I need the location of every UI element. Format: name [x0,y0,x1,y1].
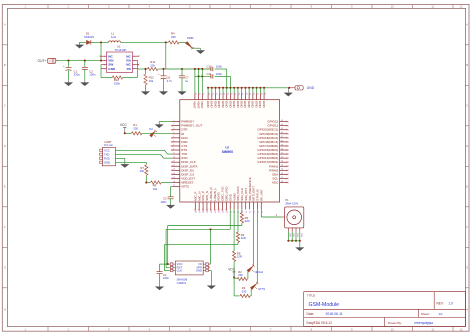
svg-text:43: 43 [223,211,225,213]
svg-text:C11: C11 [207,72,212,76]
svg-text:1u: 1u [185,79,189,83]
ground [159,91,167,95]
svg-text:DISP_CS: DISP_CS [181,172,194,176]
wire VCC to R3 [234,277,239,296]
svg-text:13: 13 [173,169,175,171]
svg-text:50: 50 [250,211,252,213]
svg-text:17: 17 [194,93,196,95]
svg-text:GPIO17(KBR4): GPIO17(KBR4) [257,160,278,164]
svg-text:SCL: SCL [272,176,278,180]
svg-text:52: 52 [257,211,259,213]
ground [75,42,83,48]
resistor R12 10k [144,68,154,91]
svg-text:17: 17 [173,185,175,187]
svg-text:TC1410P: TC1410P [115,48,127,52]
svg-text:7: 7 [173,144,174,146]
svg-text:27: 27 [234,93,236,95]
svg-text:PWM1: PWM1 [269,164,278,168]
svg-text:DCD: DCD [181,136,188,140]
power flag VCC [120,123,128,134]
wire SIM RST [166,209,230,267]
svg-text:U2: U2 [225,146,229,150]
diode D1 SS54PL [80,32,102,45]
svg-text:P4 con: P4 con [104,143,113,147]
svg-text:GND: GND [213,101,217,109]
svg-text:Sheet:: Sheet: [421,312,430,316]
svg-text:46: 46 [234,211,236,213]
ground [141,91,149,95]
svg-text:10: 10 [173,157,175,159]
capacitor C11 100n [195,72,231,88]
resistor R5 22R [240,209,249,225]
svg-text:CTS: CTS [181,144,187,148]
svg-text:VBAT: VBAT [200,101,204,109]
svg-text:OUT+: OUT+ [38,59,47,63]
svg-text:25: 25 [226,93,228,95]
svg-text:EasyEDA V5.5.12: EasyEDA V5.5.12 [307,321,333,325]
svg-text:GPIO7(KBR0): GPIO7(KBR0) [259,144,278,148]
svg-text:19: 19 [202,93,204,95]
svg-text:57: 57 [281,177,283,179]
svg-text:2: 2 [173,124,174,126]
wire SIM IO [209,229,211,264]
svg-text:NETLIGHT: NETLIGHT [252,186,256,201]
ground [296,247,304,251]
svg-text:18: 18 [198,93,200,95]
resistor R8 22R [233,209,242,277]
ic U2 bottom pins [193,177,263,213]
svg-text:DISP_DC: DISP_DC [181,168,195,172]
svg-text:TXD: TXD [181,152,188,156]
svg-text:28: 28 [237,93,239,95]
node VOUT [165,41,167,69]
svg-text:SW: SW [108,63,113,67]
port GND [295,86,315,91]
wire GND rail [207,87,295,93]
svg-text:GPIO18(KBC3): GPIO18(KBC3) [257,136,278,140]
svg-text:29: 29 [241,93,243,95]
svg-text:56: 56 [281,173,283,175]
svg-text:AGND: AGND [217,191,221,201]
svg-text:100n: 100n [160,200,167,204]
svg-text:DTR: DTR [181,128,188,132]
svg-text:RXD: RXD [181,156,188,160]
svg-text:Drawn By:: Drawn By: [388,321,402,325]
resistor R3 330 [240,286,251,297]
svg-text:NRESET: NRESET [181,181,193,185]
svg-text:VBAT: VBAT [193,101,197,109]
svg-text:DBG_RXD: DBG_RXD [225,185,229,200]
svg-text:100n: 100n [216,72,223,76]
svg-text:24: 24 [223,93,225,95]
wire SIM CLK [164,245,238,271]
svg-text:mbenywijaya: mbenywijaya [415,321,434,325]
svg-text:CLK: CLK [177,269,183,273]
svg-text:GND: GND [247,101,251,109]
svg-text:37: 37 [199,211,201,213]
svg-text:GND: GND [236,101,240,109]
svg-text:44: 44 [281,124,283,126]
svg-text:220u: 220u [74,73,81,77]
svg-text:SPK_N: SPK_N [205,191,209,201]
svg-text:100n: 100n [89,73,96,77]
svg-text:PWRKEY: PWRKEY [181,120,194,124]
svg-text:GND: GND [221,101,225,109]
LED D2 [149,127,156,137]
svg-text:CARD1: CARD1 [177,281,187,285]
svg-text:45: 45 [230,211,232,213]
svg-text:55: 55 [281,169,283,171]
svg-text:VCC: VCC [120,123,128,127]
svg-text:26: 26 [230,93,232,95]
svg-text:3: 3 [173,128,174,130]
capacitor C3 100n [160,187,173,205]
inductor L1 1uH [101,32,166,43]
svg-text:ADC: ADC [272,181,279,185]
wire VBAT pin drops [195,69,202,93]
svg-text:GND: GND [232,101,236,109]
svg-text:330: 330 [133,126,138,130]
svg-text:GND: GND [240,101,244,109]
svg-text:9: 9 [173,152,174,154]
svg-text:GND: GND [228,101,232,109]
svg-text:1uH: 1uH [111,35,116,39]
svg-text:5: 5 [173,136,174,138]
svg-text:53: 53 [261,211,263,213]
svg-text:49: 49 [281,144,283,146]
svg-text:43: 43 [281,120,283,122]
svg-text:LINEIN_L: LINEIN_L [213,187,217,200]
resistor R1 330 [125,123,173,135]
svg-text:SIM_DATA: SIM_DATA [236,186,240,201]
svg-text:GPIO10(KBC1): GPIO10(KBC1) [257,128,278,132]
wire SMA shield [287,232,301,247]
capacitor C7 1u [179,68,189,91]
svg-text:GPIO9(KBC2): GPIO9(KBC2) [259,132,278,136]
wire UART pin4 [116,162,147,164]
wire VIN rail [57,60,102,62]
svg-text:GND: GND [210,101,214,109]
wire UART gnd [116,158,125,163]
svg-text:EN: EN [126,59,131,63]
svg-text:30: 30 [245,93,247,95]
svg-text:RF_ANT: RF_ANT [259,189,263,201]
svg-text:20: 20 [208,93,210,95]
svg-text:1.0: 1.0 [449,301,454,305]
ground [207,285,215,289]
svg-text:GPIO15(KBR1): GPIO15(KBR1) [257,148,278,152]
connector P1 SMA-CON [281,198,304,237]
svg-text:41: 41 [215,211,217,213]
svg-text:LINEIN_R: LINEIN_R [209,186,213,200]
wire RF_ANT [261,209,281,217]
wire SIM GND [209,271,212,285]
LED PWR [185,36,200,49]
svg-text:GND: GND [217,101,221,109]
svg-text:47: 47 [281,136,283,138]
svg-text:GND: GND [196,269,202,273]
svg-text:NC: NC [126,54,131,58]
svg-text:33: 33 [256,93,258,95]
svg-text:VSIM: VSIM [232,193,236,201]
svg-text:48: 48 [242,211,244,213]
svg-text:SS54PL: SS54PL [84,35,95,39]
wire VBAT rail [166,68,211,70]
svg-text:GPIO14(KBR3): GPIO14(KBR3) [257,156,278,160]
svg-text:PWR: PWR [187,36,194,40]
svg-text:42: 42 [219,211,221,213]
svg-text:4: 4 [173,132,174,134]
svg-text:VRTC: VRTC [181,185,190,189]
ground [196,48,204,54]
resistor R2 330 [234,270,248,281]
svg-text:4.7u: 4.7u [167,79,173,83]
svg-text:SPK_P: SPK_P [201,191,205,201]
resistor R6 22R [236,209,245,244]
svg-text:DSR: DSR [181,140,188,144]
svg-text:REV:: REV: [437,301,444,305]
svg-text:GND: GND [228,193,232,201]
svg-text:10k: 10k [139,169,144,173]
svg-text:1: 1 [173,120,174,122]
resistor R9 10k [146,181,172,191]
svg-text:58: 58 [281,181,283,183]
svg-text:14: 14 [173,173,175,175]
svg-text:53: 53 [281,161,283,163]
svg-text:GND: GND [254,101,258,109]
svg-text:100k: 100k [114,81,121,85]
connector P4 UART header [100,140,116,166]
svg-text:2018-06-11: 2018-06-11 [326,312,343,316]
svg-text:DBG_TXD: DBG_TXD [221,186,225,201]
svg-text:54: 54 [281,165,283,167]
svg-text:100n: 100n [216,65,223,69]
wire PWRKEY to ground [159,122,172,124]
svg-text:VDD_EXT: VDD_EXT [181,176,195,180]
svg-text:VCC: VCC [228,268,235,272]
svg-text:11: 11 [173,161,175,163]
svg-text:C10: C10 [207,65,213,69]
svg-text:VIN: VIN [108,59,114,63]
capacitor C2 100n [82,61,96,80]
LED NLIGH [247,209,263,273]
svg-text:SDA: SDA [272,172,278,176]
svg-text:46: 46 [281,132,283,134]
svg-text:50: 50 [281,148,283,150]
ground [166,204,174,208]
port OUT+ [38,58,58,63]
svg-text:SIM_RST: SIM_RST [244,188,248,201]
svg-text:MIC_P: MIC_P [193,192,197,201]
resistor R10 100k [112,61,137,86]
svg-text:VBAT: VBAT [196,101,200,109]
svg-text:MIC_N: MIC_N [197,191,201,200]
svg-text:49: 49 [246,211,248,213]
svg-text:12: 12 [173,165,175,167]
svg-text:GSM-Module: GSM-Module [309,302,340,308]
wire SIM VCC [167,226,242,266]
svg-text:GND: GND [243,101,247,109]
ground [121,163,129,168]
ground [81,80,89,86]
svg-text:51: 51 [281,152,283,154]
resistor R4 330 [166,32,187,44]
LED STTS [250,209,265,291]
svg-text:1/1: 1/1 [439,312,444,316]
svg-text:DISP_DATA: DISP_DATA [181,164,197,168]
svg-text:22: 22 [215,93,217,95]
svg-text:NC: NC [126,63,131,67]
svg-text:32: 32 [252,93,254,95]
svg-text:Date:: Date: [307,312,315,316]
wire UART RXD [116,154,173,158]
svg-text:52: 52 [281,157,283,159]
svg-text:NC: NC [108,54,113,58]
svg-text:TITLE:: TITLE: [307,294,316,298]
svg-text:330: 330 [171,35,176,39]
svg-text:22k: 22k [150,63,155,67]
svg-text:40: 40 [211,211,213,213]
resistor R11 22k [138,60,166,70]
ground [284,88,292,96]
svg-text:PWM2: PWM2 [269,168,278,172]
ground [178,91,186,95]
svg-text:34: 34 [260,93,262,95]
svg-text:15: 15 [173,177,175,179]
svg-text:GND: GND [108,67,116,71]
connector CARD1 SIM-008 [170,261,210,285]
capacitor C4 100n [157,264,170,286]
ic U2 left pins [171,120,203,189]
ground [64,80,72,86]
svg-text:47: 47 [238,211,240,213]
svg-text:100n: 100n [163,276,170,280]
svg-text:31: 31 [249,93,251,95]
ic U2 SIM900 [180,100,280,202]
svg-text:SIM_CLK: SIM_CLK [240,188,244,201]
svg-text:36: 36 [195,211,197,213]
svg-text:DISP_CLK: DISP_CLK [181,160,196,164]
svg-text:GND: GND [225,101,229,109]
svg-text:10k: 10k [153,187,158,191]
svg-text:PWRKEY_OUT: PWRKEY_OUT [181,124,202,128]
svg-text:GND: GND [262,101,266,109]
svg-text:RI: RI [181,132,184,136]
capacitor C6 4.7u [158,68,172,91]
svg-text:SIM_PRESENCE: SIM_PRESENCE [248,177,252,201]
svg-text:23: 23 [219,93,221,95]
wire UART TXD [116,150,173,154]
svg-text:35: 35 [264,93,266,95]
svg-text:GND: GND [206,101,210,109]
svg-text:38: 38 [203,211,205,213]
svg-text:GPIO16(KBR2): GPIO16(KBR2) [257,152,278,156]
ic U2 top pins [193,93,266,109]
wire [226,69,228,88]
wire [100,41,102,60]
svg-text:16: 16 [173,181,175,183]
op-amp U1 TC1410P [100,45,140,73]
svg-text:GPIO12: GPIO12 [267,120,278,124]
svg-text:6: 6 [173,140,174,142]
wire SW to R10 [101,65,112,78]
svg-text:8: 8 [173,148,174,150]
svg-text:GPIO8(KBC4): GPIO8(KBC4) [259,140,278,144]
svg-text:44: 44 [226,211,228,213]
svg-text:GND: GND [258,101,262,109]
svg-text:GPIO11: GPIO11 [268,124,279,128]
capacitor C1 220u [63,61,80,80]
svg-text:GND: GND [251,101,255,109]
ic U2 right pins [257,120,288,185]
svg-text:RTS: RTS [181,148,187,152]
svg-text:GND: GND [307,86,315,90]
capacitor C10 100n [207,65,227,71]
svg-text:48: 48 [281,140,283,142]
svg-text:10k: 10k [149,79,154,83]
svg-text:STATUS: STATUS [256,189,260,200]
svg-text:21: 21 [211,93,213,95]
svg-text:45: 45 [281,128,283,130]
svg-text:51: 51 [254,211,256,213]
ground [155,286,163,290]
ground [155,124,163,128]
power flag VCC [228,268,236,279]
title block [304,292,466,327]
svg-text:SIM900: SIM900 [222,150,234,154]
resistor R7 10k [139,165,147,184]
svg-text:39: 39 [207,211,209,213]
